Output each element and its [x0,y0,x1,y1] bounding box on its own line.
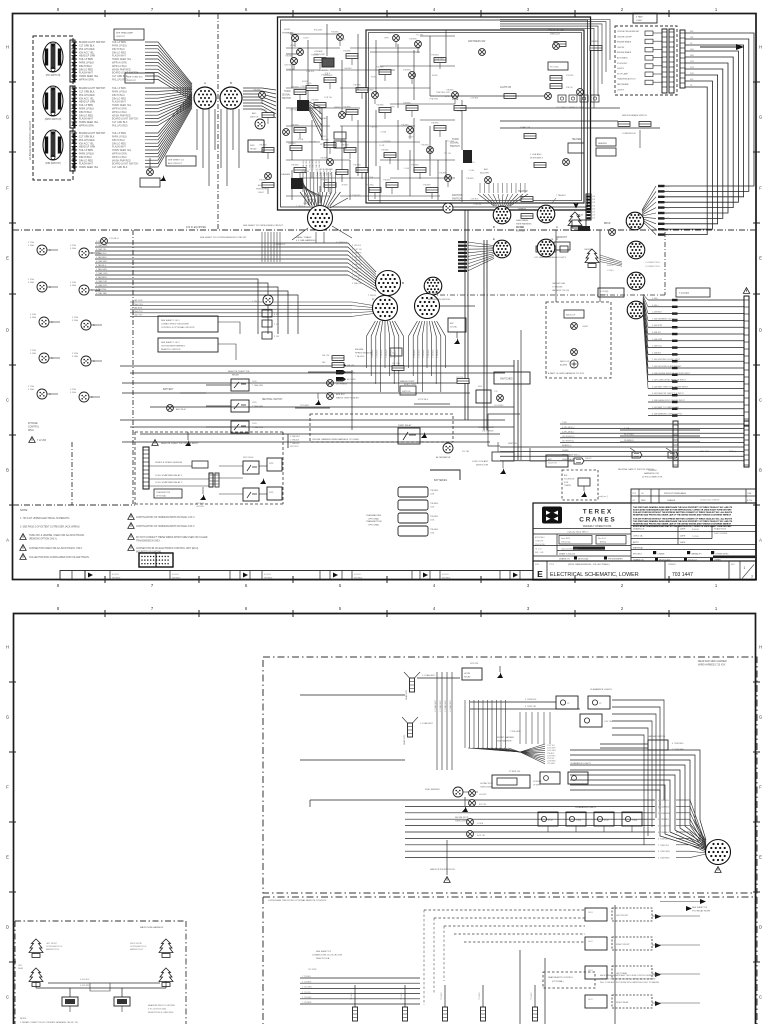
svg-text:PRO/ENGINEER: PRO/ENGINEER [608,559,623,561]
svg-text:RING: RING [28,430,34,432]
svg-text:(REMOVE OPTION ONLY): (REMOVE OPTION ONLY) [29,538,57,540]
svg-text:6-20-03: 6-20-03 [172,574,179,576]
bundle 24J703 [620,429,700,431]
svg-text:PRESS SW: PRESS SW [282,32,293,34]
svg-text:TRANSMISSION ONLY.: TRANSMISSION ONLY. [136,539,161,542]
svg-text:regis.futurethings.doc: regis.futurethings.doc [561,548,578,551]
svg-text:WATER TEMP SENDER: WATER TEMP SENDER [336,396,359,399]
svg-text:FOG/SONO: FOG/SONO [617,63,628,65]
svg-text:LOW AIR: LOW AIR [470,97,479,100]
svg-text:G: G [759,715,762,720]
svg-text:REF - 2.0M: REF - 2.0M [535,552,544,554]
arrow top right [736,44,744,50]
svg-text:RIGHT FRONT: RIGHT FRONT [130,943,143,945]
dashed box carrier harness [263,657,757,893]
svg-text:OIL RIGHT(-): OIL RIGHT(-) [562,441,574,443]
svg-text:7TA YELLOW: 7TA YELLOW [436,91,450,94]
svg-text:A: A [6,538,9,543]
connector P3 dimmer switch [43,130,63,160]
svg-text:REMOTE CONTROL: REMOTE CONTROL [161,349,181,351]
dashed box dash connectors [33,36,73,180]
svg-text:C R A N E S: C R A N E S [579,517,615,524]
svg-text:PROJECT: PROJECT [633,554,643,556]
svg-text:WPR HI GRN: WPR HI GRN [79,79,94,82]
svg-text:D: D [759,328,762,333]
svg-text:T E R E X: T E R E X [583,509,612,516]
svg-text:2-TBA GRN: 2-TBA GRN [308,160,311,170]
connector head lamps 1 [410,678,415,692]
svg-text:7-TBA BLK: 7-TBA BLK [296,205,306,208]
svg-text:1 COAB WHT: 1 COAB WHT [422,674,436,677]
svg-text:2 713 WHT: 2 713 WHT [302,997,312,999]
bracket block2 [70,86,75,128]
divider horizontal dash-dot [13,229,756,231]
connector F ring [537,205,555,223]
air clutch box [546,455,568,467]
svg-text:AUTOMATIC: AUTOMATIC [617,57,629,60]
svg-text:4 713M RED: 4 713M RED [672,743,684,745]
svg-text:ETA GRN: ETA GRN [314,29,323,32]
svg-text:DASH PANEL: DASH PANEL [516,219,529,222]
svg-text:CAL YEL: CAL YEL [347,364,355,367]
svg-text:PNL LPS RED: PNL LPS RED [112,125,128,128]
svg-text:EACH HARNESS 80876 AND TWO DRU: EACH HARNESS 80876 AND TWO DRUM CONTROL … [600,974,661,977]
svg-text:ETA GRN: ETA GRN [430,97,439,100]
svg-text:1 J3B BLK: 1 J3B BLK [437,349,439,358]
svg-text:MICROCAD: MICROCAD [578,558,589,561]
svg-text:2 J4B GRN: 2 J4B GRN [652,339,663,341]
svg-text:G: G [6,115,9,120]
svg-text:RMT RELAY: RMT RELAY [243,456,254,459]
svg-text:RESERVED AND PROTECTED UNDER L: RESERVED AND PROTECTED UNDER LAW OF THE … [633,514,732,517]
connector D ring [308,206,333,231]
svg-text:CRANE: CRANE [658,553,666,556]
svg-text:4CB H: 4CB H [303,38,309,40]
svg-text:CHANGE: CHANGE [667,499,676,502]
outrigger tree 1 [29,939,43,958]
svg-text:4 713M BLK: 4 713M BLK [525,699,537,701]
center harness bundle [560,423,744,425]
svg-text:B: B [6,468,9,473]
svg-text:PRESS SW: PRESS SW [314,54,325,56]
svg-text:MARKER PLUG: MARKER PLUG [46,948,60,951]
svg-text:TRANSMITTER: TRANSMITTER [366,520,382,523]
warn remote throttle [152,440,158,446]
svg-text:HEAD LPS: HEAD LPS [403,734,406,745]
svg-text:LOW COOLANT: LOW COOLANT [472,460,489,463]
wire hl band2 [460,107,620,109]
svg-text:C: C [51,357,53,360]
svg-text:6-20-03: 6-20-03 [692,529,699,531]
svg-text:4CB H: 4CB H [325,73,331,75]
svg-text:(REV6 CAB/ENGINE/SN - FULLER T: (REV6 CAB/ENGINE/SN - FULLER TRANS.) [568,563,610,566]
svg-text:TURN: TURN [632,820,638,822]
component backup light [564,310,584,318]
connector head lamps 2 [408,723,413,737]
component neutral sw [289,407,291,409]
svg-text:HEATER: HEATER [598,142,607,145]
svg-text:FUSE: FUSE [452,98,459,101]
horn arrow [497,672,503,678]
svg-text:7 J4 XXX: 7 J4 XXX [679,292,689,295]
svg-text:OTHER SPEC: OTHER SPEC [716,554,730,556]
cal yel fuses [332,356,344,361]
svg-text:H: H [759,645,762,650]
dashed box cruise carrier [310,414,453,442]
svg-text:DRAWN DS: DRAWN DS [633,528,645,531]
svg-text:7TA RED: 7TA RED [376,104,384,107]
svg-text:5 15A: 5 15A [30,316,36,319]
svg-text:DATE: DATE [680,528,686,531]
svg-text:WAVERLY OPERATIONS: WAVERLY OPERATIONS [583,525,612,528]
svg-text:5 713M GRN: 5 713M GRN [658,813,670,815]
svg-text:C6B YEL: C6B YEL [288,143,296,145]
svg-text:COLLECTOR RING CONFIGURED FOR: COLLECTOR RING CONFIGURED FOR FULLER TRA… [29,556,90,559]
svg-text:4 713M YEL: 4 713M YEL [525,706,537,708]
svg-text:ASSOCIATED SUBSIDIARIES AND MA: ASSOCIATED SUBSIDIARIES AND MAY NOT BE R… [633,509,732,512]
svg-text:F: F [759,785,762,790]
svg-text:PTO DISC: PTO DISC [550,67,560,69]
svg-text:7TA RED: 7TA RED [353,84,361,87]
svg-text:C6B YEL: C6B YEL [309,142,317,144]
svg-text:CARRIER CAB: CARRIER CAB [552,282,566,285]
svg-text:7 TBA RED: 7 TBA RED [290,442,300,445]
svg-text:SEE HEADLAMP: SEE HEADLAMP [116,32,134,35]
outrigger tree 2 [159,939,173,958]
component small box pair2 [262,332,272,339]
outline box engine inner [366,30,584,203]
svg-text:T8 - 4 hrs: T8 - 4 hrs [535,549,542,551]
svg-text:2 17A: 2 17A [72,316,78,319]
svg-text:2 17A: 2 17A [72,352,78,355]
svg-text:TURN LIGHT: TURN LIGHT [480,786,493,788]
connector C2 ring [537,239,555,257]
svg-text:1 THA BLK: 1 THA BLK [290,438,300,441]
svg-text:2 J1B: 2 J1B [548,239,554,241]
svg-text:4CB H: 4CB H [408,137,414,139]
svg-text:2-TBA GRN: 2-TBA GRN [312,160,315,170]
svg-text:OIL PRESS: OIL PRESS [336,383,348,385]
svg-text:E: E [6,256,9,261]
svg-text:SPARE: SPARE [562,449,569,452]
component compressor sw [497,439,499,441]
svg-text:CONTROL & OPTIONAL CIRCUITS: CONTROL & OPTIONAL CIRCUITS [161,326,195,329]
wire bus nested L right side [662,33,754,186]
svg-text:7 TBA GRN: 7 TBA GRN [252,405,263,408]
dashed box remote control [263,896,757,898]
ground cs right [260,478,266,484]
svg-text:TURN LIGHT: TURN LIGHT [455,820,468,822]
svg-text:1 J3B BLK: 1 J3B BLK [423,349,425,358]
component lamp lower-left [147,169,154,176]
svg-text:BOR YEL: BOR YEL [477,835,485,837]
svg-text:RIGHT FRONT: RIGHT FRONT [616,944,630,946]
svg-text:LH TAIL STOP: LH TAIL STOP [480,782,494,785]
svg-text:5 13A BRN: 5 13A BRN [352,252,362,255]
svg-text:LP WHT: LP WHT [533,784,541,786]
svg-text:SERVICE BRAKE SWITCH: SERVICE BRAKE SWITCH [622,114,647,117]
svg-text:2 CB: 2 CB [274,336,279,338]
svg-text:7TA RED: 7TA RED [353,164,361,167]
svg-text:C6B YEL: C6B YEL [284,64,292,66]
aux pressure lamp [265,173,272,180]
bracket block1 [70,40,75,82]
component 4cb box [390,348,402,356]
svg-text:GROUND: GROUND [196,506,205,508]
svg-text:WIPER: WIPER [334,107,341,109]
double bar connector cs [209,473,213,487]
wires danger [600,743,648,745]
svg-text:2 17A: 2 17A [70,244,76,247]
svg-text:CRUISE PRESSURE NET: CRUISE PRESSURE NET [617,31,640,33]
clearance box 2 [588,696,610,709]
svg-text:DASH / TRANS: DASH / TRANS [296,236,312,239]
svg-text:7-17-05: 7-17-05 [692,536,699,538]
svg-text:C: C [93,360,95,363]
svg-text:1: 1 [744,566,746,570]
svg-text:1 COAB WHT: 1 COAB WHT [444,699,447,712]
svg-text:DANGER SWITCH: DANGER SWITCH [648,735,666,738]
svg-text:PART/SPARE: PART/SPARE [617,83,629,86]
svg-text:SWITCH: SWITCH [250,116,259,118]
svg-text:7 713 BLK: 7 713 BLK [302,976,312,978]
svg-text:2 17A: 2 17A [30,313,36,316]
svg-text:4 TO 24 VOLTS 2000: 4 TO 24 VOLTS 2000 [148,1008,166,1010]
svg-text:A PART OF WIRE HARNESS 713 XXX: A PART OF WIRE HARNESS 713 XXX [548,372,585,375]
svg-text:REAR: REAR [18,967,24,970]
connector jb ring [627,272,645,290]
svg-text:6TA YEL: 6TA YEL [566,86,573,89]
component ts blob [463,150,472,163]
wire bus to rear fan [570,750,706,840]
outrigger conn 1 [62,997,78,1006]
connector P1 headlight switch [43,42,63,72]
svg-text:J CONNECTOR A: J CONNECTOR A [645,261,660,264]
box head lamp legend [114,29,144,40]
svg-text:E: E [493,237,495,241]
rear fan connector ring [706,840,731,865]
border frame page2 [14,614,756,1024]
svg-text:FLASHER: FLASHER [280,173,291,176]
svg-text:DATE: DATE [641,499,646,502]
svg-text:OIL PRESS: OIL PRESS [494,405,504,407]
svg-text:1 COAB WHT: 1 COAB WHT [449,699,452,712]
svg-text:SIDE MARKER: SIDE MARKER [497,739,512,742]
component oil yel fuse [392,366,404,371]
svg-text:REVERSING SWITCH: REVERSING SWITCH [428,299,451,301]
components cluster top-center [292,35,299,42]
relay cs B [243,488,259,501]
box spare legend [166,156,196,166]
svg-text:1 COAB WHT: 1 COAB WHT [420,722,434,725]
svg-text:RH TAIL STOP: RH TAIL STOP [455,816,469,819]
svg-text:CIRCUIT: CIRCUIT [127,80,137,82]
svg-text:SEE SHEET 1/2 OUTRIGGER/HOIST: SEE SHEET 1/2 OUTRIGGER/HOIST CIRCUIT [200,237,247,239]
svg-text:D: D [6,925,9,930]
fan from E2 to label bars [468,242,494,246]
svg-text:REVISED: REVISED [354,578,363,580]
svg-text:THIS PRINT AND DRAWING DATA HE: THIS PRINT AND DRAWING DATA HEREON ARE T… [633,506,733,509]
svg-text:DRAWN ON: DRAWN ON [559,558,570,561]
svg-text:HORN: HORN [342,185,348,187]
divider vertical dash-dot [217,14,219,230]
svg-text:CONTINUATION OF HARNESS 80876: CONTINUATION OF HARNESS 80876 ON PAGE 3 … [136,525,195,528]
svg-text:RAN FOR PIN B7 TR FCB: RAN FOR PIN B7 TR FCB [430,868,455,871]
svg-text:SWITCH: SWITCH [550,33,560,36]
svg-text:MACROVINE HARNESS: MACROVINE HARNESS [140,926,164,929]
svg-text:SOLENOID: SOLENOID [564,478,575,480]
svg-text:COMBO THROTTLE/CRUISE: COMBO THROTTLE/CRUISE [161,323,189,325]
terex logo [542,507,562,524]
svg-text:4 16B GRN: 4 16B GRN [352,275,362,277]
pin bar outer cruise [680,30,685,88]
component cto circle [101,238,108,245]
amato temp sw [411,389,413,391]
svg-text:C6L YEL: C6L YEL [392,363,401,365]
long vertical pair 2 [483,240,485,430]
svg-text:HORN: HORN [290,45,296,47]
svg-text:CRUISE CARRIER WIRE HARNESS 71: CRUISE CARRIER WIRE HARNESS 713 USED [312,438,360,441]
svg-text:FOR: FOR [564,482,569,484]
svg-text:AERIAL/FT: AERIAL/FT [692,553,703,556]
dashed box outrigger [15,920,186,922]
component air solenoid box [448,318,466,332]
svg-text:2-TBA GRN: 2-TBA GRN [302,160,305,170]
svg-text:3 TAB BRN: 3 TAB BRN [132,306,143,309]
pin block 2 wires [73,88,75,128]
svg-text:6TB RED: 6TB RED [566,75,574,77]
svg-text:5 15A: 5 15A [30,352,36,355]
remote wire stack [300,977,420,979]
wcs circle [327,159,334,166]
svg-text:LOW AIR: LOW AIR [314,50,323,53]
svg-text:E: E [759,855,762,860]
pin bars cruise switches [662,29,667,93]
svg-text:APP'D: APP'D [633,541,640,544]
svg-text:AUX BLM: AUX BLM [176,408,186,411]
svg-text:HORN: HORN [432,75,438,77]
svg-text:LIGHTS: LIGHTS [617,68,625,70]
svg-text:7TA RED: 7TA RED [320,156,328,159]
svg-text:28-B8M(J): 28-B8M(J) [624,440,634,442]
svg-text:COM B: COM B [477,823,484,825]
svg-text:1 713 GRN: 1 713 GRN [302,987,312,989]
svg-text:4CB: 4CB [592,196,595,198]
svg-text:CONTROL: CONTROL [28,427,40,429]
long vertical pair 1 [464,210,466,420]
svg-text:BRKR: BRKR [604,223,611,225]
danger switch [648,740,668,750]
svg-text:1 17A GRN: 1 17A GRN [352,255,362,258]
svg-text:3: 3 [751,575,753,579]
svg-text:C: C [91,396,93,399]
svg-text:CLEARANCE LIGHTS: CLEARANCE LIGHTS [575,806,596,809]
svg-text:CLEARANCE LIGHTS: CLEARANCE LIGHTS [570,762,591,765]
component backup alarm [571,349,578,356]
license plate box [492,775,530,788]
outrigger tree 3 [29,968,43,987]
svg-text:WIPER: WIPER [518,208,526,211]
svg-text:BATTERIES: BATTERIES [434,479,448,482]
svg-text:PWR: PWR [269,492,274,494]
svg-text:ROR YEL: ROR YEL [470,663,480,665]
svg-text:SEE SHEET 1/2: SEE SHEET 1/2 [316,951,332,953]
svg-text:CONNECTION 12 COLLECTOR: CONNECTION 12 COLLECTOR [312,954,343,956]
svg-text:4-J709 BLK: 4-J709 BLK [80,979,90,981]
svg-text:THIS PRINT AND DRAWING DATA HE: THIS PRINT AND DRAWING DATA HEREON ARE T… [633,520,733,523]
svg-text:6 713M GRN: 6 713M GRN [658,851,670,853]
svg-text:7 TBA BLK: 7 TBA BLK [556,194,566,197]
ground relay bottom [185,440,191,446]
relay stack remote throttle [231,379,249,391]
svg-text:1 LGB: 1 LGB [468,170,474,172]
component lamp right1 [545,93,552,100]
svg-text:G: G [759,115,762,120]
svg-text:7 TA GRD: 7 TA GRD [355,355,365,358]
svg-text:707 5736: 707 5736 [308,969,317,971]
svg-text:HORN: HORN [284,29,290,31]
svg-text:7TA RED: 7TA RED [311,99,319,102]
svg-text:F: F [759,186,762,191]
svg-text:LIGHT: LIGHT [258,192,265,194]
svg-text:A: A [204,81,206,85]
vertical wires horn [436,672,438,770]
svg-text:MATERIAL: MATERIAL [633,547,644,550]
svg-text:SHIELD: SHIELD [607,265,614,267]
svg-text:J 703(L): J 703(L) [607,270,614,272]
outrigger tree 4 [159,968,173,987]
outrigger conn 2 [114,997,130,1006]
svg-text:6 713M RED: 6 713M RED [658,806,670,808]
svg-text:ENGINE BRAKE: ENGINE BRAKE [617,51,632,54]
svg-text:ELECTRICAL SCHEMATIC, LOWER: ELECTRICAL SCHEMATIC, LOWER [550,572,639,578]
svg-text:ON/OFF: ON/OFF [617,47,625,49]
svg-text:LGB BLK: LGB BLK [303,203,312,205]
svg-text:LEFT FRONT: LEFT FRONT [46,943,58,945]
svg-text:STOP LAMP: STOP LAMP [617,72,628,75]
svg-text:COB YEL: COB YEL [324,97,332,99]
wiper motor circle [339,112,346,119]
svg-text:LGB BLK: LGB BLK [306,71,315,73]
divider notes dash-dot [13,504,135,506]
svg-text:C: C [49,249,51,252]
svg-text:CENTER: CENTER [648,470,657,472]
svg-text:2-TBA GRN: 2-TBA GRN [305,160,308,170]
svg-text:REMOTE THROTTLE ON/OFF INPUT: REMOTE THROTTLE ON/OFF INPUT [161,443,199,445]
svg-text:7 CAB ORG: 7 CAB ORG [132,303,143,306]
svg-text:3 TBA ORG: 3 TBA ORG [352,282,362,285]
svg-text:LIGHT: LIGHT [582,326,589,328]
svg-text:6-20-03: 6-20-03 [264,574,271,576]
transmitter optional box [154,489,182,498]
svg-text:E: E [537,569,543,579]
svg-text:B: B [230,81,232,85]
ground coolant [500,468,506,474]
wires legend [218,322,240,334]
connector P2 wiper switch [43,86,63,116]
svg-text:SEE SHEET 1/2: SEE SHEET 1/2 [168,160,185,162]
svg-text:SEE SHEET 1 OF 2: SEE SHEET 1 OF 2 [161,342,180,344]
pin bar column right [586,194,591,220]
svg-text:A: A [372,297,374,301]
svg-text:LOE YEL: LOE YEL [604,721,613,723]
svg-text:4 TBA WHT: 4 TBA WHT [290,435,301,438]
svg-text:Binkley: Binkley [600,542,606,544]
svg-text:5 J4F WTR: 5 J4F WTR [652,325,663,327]
svg-text:THERMASTER: THERMASTER [366,514,381,517]
svg-text:F: F [6,186,9,191]
svg-text:20 PIN CONNECTOR: 20 PIN CONNECTOR [642,476,663,478]
